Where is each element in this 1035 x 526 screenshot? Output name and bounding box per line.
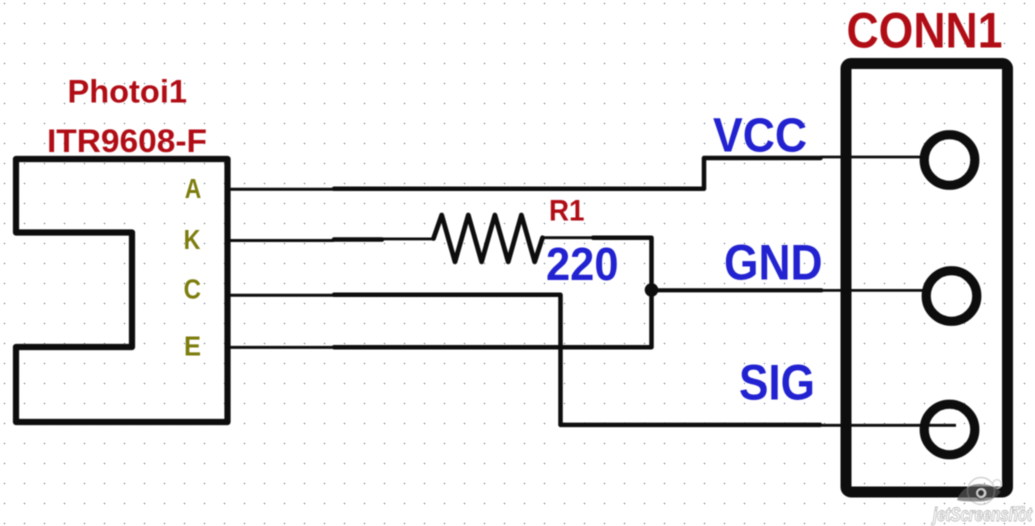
- pin E stub: [229, 346, 334, 349]
- resistor R1 body: [434, 215, 543, 262]
- wire SIG net: pin C right, down, right to connector: [334, 295, 820, 425]
- wire GND net to connector: [652, 288, 822, 292]
- connector pin 2 circle: [926, 271, 977, 322]
- resistor R1 left lead: [381, 237, 434, 240]
- svg-text:E: E: [184, 331, 201, 362]
- pin A stub: [229, 188, 334, 191]
- svg-text:VCC: VCC: [713, 109, 807, 163]
- wire VCC net: pin A to connector, with step up: [334, 158, 821, 189]
- svg-text:C: C: [184, 273, 201, 304]
- junction node GND: [645, 283, 659, 297]
- svg-text:K: K: [184, 224, 201, 255]
- svg-text:ITR9608-F: ITR9608-F: [47, 123, 207, 159]
- connector pin 1 stub: [821, 156, 924, 159]
- svg-text:.com: .com: [1010, 505, 1025, 512]
- connector pin 3 stub: [820, 424, 956, 427]
- connector pin 2 stub: [822, 289, 925, 292]
- wire resistor to GND node, down to E wire: [334, 238, 652, 348]
- svg-text:220: 220: [546, 238, 619, 290]
- watermark camera icon: [957, 478, 1001, 505]
- pin K stub: [229, 239, 334, 242]
- wire K to resistor: [334, 237, 382, 242]
- pin C stub: [229, 294, 334, 297]
- connector pin 3 circle: [924, 404, 975, 455]
- svg-text:R1: R1: [549, 194, 585, 227]
- connector CONN1 body: [846, 64, 1008, 493]
- photo-interrupter U1 body (Photoi1 / ITR9608-F): [16, 159, 228, 422]
- svg-text:GND: GND: [724, 234, 823, 290]
- svg-text:CONN1: CONN1: [847, 3, 1003, 59]
- connector pin 1 circle: [924, 135, 975, 186]
- svg-text:SIG: SIG: [739, 353, 815, 410]
- svg-text:A: A: [185, 173, 202, 204]
- svg-text:Photoi1: Photoi1: [68, 74, 188, 110]
- resistor R1 right lead: [542, 236, 594, 239]
